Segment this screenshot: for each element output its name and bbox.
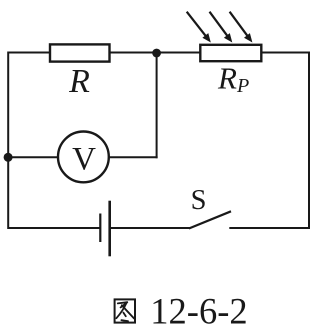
glyph tu inner strokes <box>118 302 128 307</box>
wire vertical to top node <box>156 53 158 158</box>
light arrow 3 <box>230 12 248 36</box>
node junction left <box>4 153 13 162</box>
wire node to voltmeter <box>8 156 59 158</box>
wire top-left segment <box>8 52 52 54</box>
wire node to RP <box>157 52 201 54</box>
svg-text:V: V <box>72 142 96 178</box>
caption figure 12-6-2 <box>115 290 248 328</box>
glyph tu (enclosure) <box>115 299 135 322</box>
wire bottom-right segment <box>229 227 310 229</box>
wire RP to right corner <box>261 52 310 54</box>
switch S <box>189 185 231 229</box>
wire bottom-left segment <box>8 227 100 229</box>
svg-text:S: S <box>191 185 207 216</box>
photoresistor RP <box>187 12 262 98</box>
wire voltmeter to vertical <box>109 156 158 158</box>
wire left vertical <box>7 52 9 230</box>
resistor R <box>50 44 110 100</box>
svg-text:R: R <box>68 63 90 100</box>
node junction top <box>152 49 161 58</box>
battery <box>100 201 109 257</box>
wire battery to switch <box>110 227 190 229</box>
voltmeter V <box>58 132 109 183</box>
svg-text:12-6-2: 12-6-2 <box>150 290 247 328</box>
wire right vertical <box>308 52 310 230</box>
light arrow 1 <box>187 12 206 36</box>
light arrow 2 <box>210 12 228 36</box>
svg-text:RP: RP <box>217 61 249 98</box>
wire R to node <box>110 52 158 54</box>
